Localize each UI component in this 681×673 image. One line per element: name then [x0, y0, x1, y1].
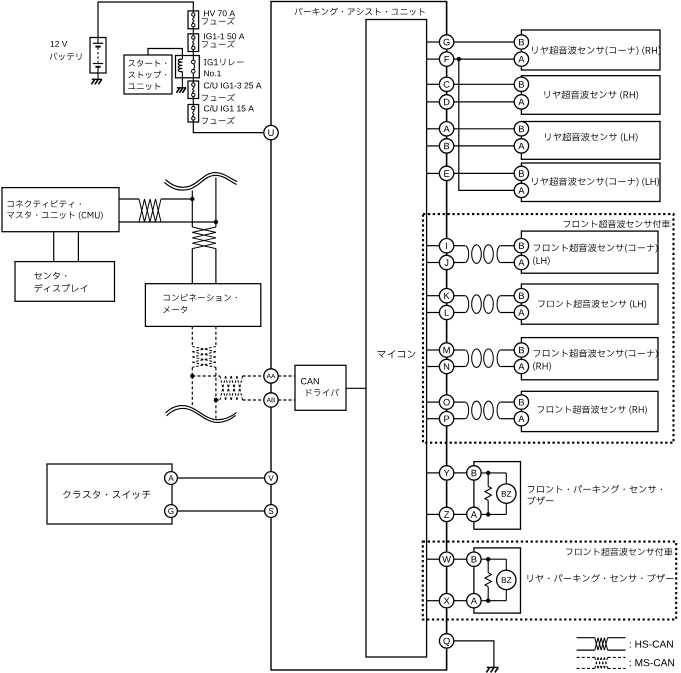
- ground unit: [487, 666, 499, 668]
- wire pair to front sensor 4: [454, 401, 466, 403]
- wire Q to ground: [454, 641, 494, 668]
- wire G to rear corner RH B: [454, 41, 514, 43]
- label rear buzzer: [528, 574, 674, 582]
- wire micon to I: [427, 245, 440, 247]
- wire micon to W: [427, 558, 440, 560]
- wire micon to O: [427, 401, 440, 403]
- front parking sensor buzzer internal wiring: [481, 472, 506, 474]
- wire micon to C: [427, 83, 440, 85]
- relay contact: [192, 56, 194, 61]
- terminal A rear2: [514, 95, 528, 109]
- fuse IG1-1 50A: [188, 34, 199, 52]
- wire A to V: [177, 477, 264, 479]
- wire G to S: [177, 510, 264, 512]
- wire Z to front buzzer A: [454, 513, 467, 515]
- label front buzzer: [528, 485, 662, 493]
- wire micon to M: [427, 349, 440, 351]
- label center display: [34, 272, 66, 280]
- terminal A front4: [514, 412, 528, 426]
- CAN driver U2 box: [295, 365, 346, 410]
- front parking sensor buzzer sounder BZ: [497, 484, 516, 503]
- terminal Y: [439, 466, 453, 480]
- wire micon to Z: [427, 513, 440, 515]
- label fuse C/U IG1 15A: [204, 105, 254, 111]
- combination meter box: [145, 284, 260, 327]
- rear parking sensor buzzer node B: [486, 557, 490, 561]
- twisted pair MS vertical dashed: [192, 347, 216, 352]
- terminal AA: [264, 369, 278, 383]
- wire battery to fuse chain: [98, 2, 193, 38]
- terminal Q: [439, 634, 453, 648]
- terminal B rear4: [514, 166, 528, 180]
- wire MS-CAN below meter: [191, 326, 193, 346]
- wire: [192, 78, 194, 81]
- relay coil: [181, 56, 183, 60]
- front ultrasonic RH box: [521, 391, 658, 431]
- dotted box rear buzzer: [423, 542, 676, 620]
- start-stop unit box: [124, 55, 172, 94]
- label front sensor equipped 1: [564, 220, 670, 228]
- wire CMU CAN-L: [119, 221, 161, 223]
- rear parking sensor buzzer terminal A: [467, 594, 481, 608]
- rear parking sensor buzzer internal wiring: [481, 558, 506, 560]
- terminal F: [439, 52, 453, 66]
- terminal M: [439, 343, 453, 357]
- wire micon to F: [427, 58, 440, 60]
- terminal A cluster: [165, 472, 178, 485]
- wire micon to L: [427, 312, 440, 314]
- fuse C/U IG1-3 25A: [188, 81, 199, 99]
- ground relay coil: [177, 87, 186, 89]
- microcomputer block: [366, 20, 427, 658]
- terminal C: [439, 77, 453, 91]
- wire Y to front buzzer B: [454, 472, 467, 474]
- node MS-L junction: [214, 398, 218, 402]
- wire MS-CAN H: [191, 367, 193, 376]
- terminal L: [439, 305, 453, 319]
- terminal K: [439, 289, 453, 303]
- break wave top: [166, 173, 238, 188]
- terminal U: [264, 125, 278, 139]
- wire MS-CAN L: [215, 367, 217, 400]
- twisted pair front sensor 4: [466, 402, 469, 419]
- label fuse HV 70A: [204, 10, 235, 16]
- wire micon to K: [427, 295, 440, 297]
- unit right edge terminal column: [446, 2, 448, 671]
- rear ultrasonic LH box: [521, 122, 660, 160]
- label front LH: [538, 300, 646, 309]
- parking assist unit box: [271, 2, 447, 671]
- terminal A front2: [514, 305, 528, 319]
- wire CMU to display: [53, 232, 55, 262]
- terminal A rear1: [514, 52, 528, 66]
- wire pair to front sensor 1: [454, 245, 466, 247]
- twisted pair AA/AB dashed: [220, 376, 226, 400]
- terminal A front3: [514, 359, 528, 373]
- wire pair to front sensor 3: [454, 349, 466, 351]
- terminal W: [439, 552, 453, 566]
- wire F to rear corner RH A: [454, 58, 514, 60]
- node MS-H junction: [190, 374, 194, 378]
- wire micon to J: [427, 262, 440, 264]
- terminal B front3: [514, 343, 528, 357]
- terminal B rear2: [514, 77, 528, 91]
- terminal A: [439, 122, 453, 136]
- twisted pair front sensor 2: [466, 296, 469, 313]
- terminal D: [439, 95, 453, 109]
- terminal A rear3: [514, 139, 528, 153]
- wire MS-H to AA: [192, 375, 220, 377]
- front ultrasonic LH box: [521, 284, 658, 324]
- break wave bottom: [166, 406, 237, 420]
- node F junction: [457, 57, 461, 61]
- label rear corner LH: [532, 177, 659, 186]
- front parking sensor buzzer node A: [486, 512, 490, 516]
- terminal S: [265, 505, 278, 518]
- wire CAN driver to micon: [346, 387, 366, 389]
- terminal O: [439, 395, 453, 409]
- twisted pair front sensor 1: [466, 246, 469, 263]
- wire F bus down to rear corner LH A: [459, 59, 514, 190]
- terminal G: [439, 35, 453, 49]
- wire W to rear buzzer B: [454, 558, 467, 560]
- wire micon to G: [427, 41, 440, 43]
- wire E to rear corner LH B: [454, 172, 514, 174]
- twisted pair bus vertical: [192, 227, 216, 232]
- wire MS-L continue: [215, 400, 217, 419]
- wire B to rear LH A: [454, 145, 514, 147]
- wire C to rear RH B: [454, 83, 514, 85]
- legend HS-CAN symbol: [577, 637, 595, 639]
- label combination meter: [163, 294, 236, 302]
- terminal A rear4: [514, 183, 528, 197]
- front parking sensor buzzer node B: [486, 471, 490, 475]
- wire micon to E: [427, 172, 440, 174]
- wire pair to front sensor 2: [454, 295, 466, 297]
- front parking sensor buzzer resistor: [487, 473, 489, 487]
- label fuse C/U IG1-3 25A: [204, 82, 262, 88]
- wire CMU CAN-H: [119, 198, 139, 200]
- front parking sensor buzzer terminal A: [467, 507, 481, 521]
- wire start-stop to relay coil: [148, 49, 182, 56]
- wire A to rear LH B: [454, 128, 514, 130]
- terminal X: [439, 594, 453, 608]
- wire D to rear RH A: [454, 101, 514, 103]
- rear parking sensor buzzer resistor: [487, 559, 489, 573]
- rear parking sensor buzzer node A: [486, 599, 490, 603]
- wire micon to Y: [427, 472, 440, 474]
- terminal B front1: [514, 239, 528, 253]
- terminal E: [439, 166, 453, 180]
- label 12V battery: [51, 41, 68, 47]
- wire fuse to terminal U: [193, 122, 263, 133]
- label rear corner RH: [532, 46, 660, 55]
- legend MS-CAN text: [630, 659, 674, 666]
- terminal N: [439, 359, 453, 373]
- ground battery: [92, 78, 102, 80]
- terminal B front2: [514, 289, 528, 303]
- front parking sensor buzzer box: [474, 462, 521, 530]
- label start-stop unit: [128, 60, 166, 67]
- relay IG1 No.1 box: [176, 56, 200, 78]
- terminal AB: [264, 393, 278, 407]
- rear parking sensor buzzer terminal B: [467, 552, 481, 566]
- terminal P: [439, 412, 453, 426]
- wire: [192, 99, 194, 105]
- wire micon to X: [427, 600, 440, 602]
- legend HS-CAN text: [630, 640, 673, 647]
- label front sensor equipped 2: [566, 548, 672, 556]
- front parking sensor buzzer terminal B: [467, 466, 481, 480]
- terminal I: [439, 239, 453, 253]
- CMU box: [2, 188, 119, 232]
- center display box: [15, 262, 115, 302]
- battery BATT1 12V: [90, 38, 106, 74]
- node CAN-H junction: [190, 197, 194, 201]
- dotted box front sensors: [423, 214, 674, 443]
- wire micon to A: [427, 128, 440, 130]
- front ultrasonic corner LH box: [521, 231, 658, 273]
- wire X to rear buzzer A: [454, 600, 467, 602]
- terminal V: [265, 472, 278, 485]
- wire MS-H continue: [191, 376, 193, 407]
- rear ultrasonic corner LH box: [521, 163, 660, 202]
- twisted pair CMU: [139, 199, 145, 222]
- terminal B rear3: [514, 122, 528, 136]
- terminal B front4: [514, 395, 528, 409]
- wire micon to P: [427, 418, 440, 420]
- terminal B: [439, 139, 453, 153]
- label front corner RH: [534, 349, 658, 358]
- label CAN driver: [301, 378, 319, 384]
- wire micon to N: [427, 366, 440, 368]
- wire bus H: [191, 191, 193, 228]
- wire micon to D: [427, 101, 440, 103]
- label cluster switch: [63, 490, 150, 499]
- label front RH: [538, 405, 647, 414]
- rear ultrasonic RH box: [521, 76, 660, 115]
- label relay IG1 No.1: [204, 59, 244, 66]
- cluster switch box: [47, 464, 172, 524]
- terminal A front1: [514, 255, 528, 269]
- rear ultrasonic corner RH box: [521, 30, 660, 70]
- label parking assist unit: [295, 8, 425, 16]
- rear parking sensor buzzer sounder BZ: [497, 570, 516, 589]
- label rear RH: [545, 90, 639, 99]
- label front corner LH: [534, 244, 658, 253]
- terminal B rear1: [514, 35, 528, 49]
- terminal J: [439, 255, 453, 269]
- label CMU: [7, 200, 80, 208]
- terminal G cluster: [165, 505, 178, 518]
- wire micon to B: [427, 145, 440, 147]
- node CAN-L junction: [214, 220, 218, 224]
- legend MS-CAN symbol: [577, 656, 595, 658]
- wire AB to CAN driver: [278, 399, 295, 401]
- fuse C/U IG1 15A: [188, 105, 199, 123]
- label rear LH: [545, 133, 637, 142]
- wire AA to CAN driver: [278, 375, 295, 377]
- rear parking sensor buzzer box: [474, 548, 521, 613]
- twisted pair front sensor 3: [466, 350, 469, 367]
- terminal Z: [439, 507, 453, 521]
- label micon: [378, 350, 416, 358]
- label fuse IG1-1 50A: [204, 33, 244, 39]
- front ultrasonic corner RH box: [521, 338, 658, 380]
- fuse HV 70A: [188, 11, 199, 29]
- wire: [192, 52, 194, 56]
- wire: [192, 29, 194, 34]
- wire bus L: [215, 178, 217, 228]
- wire MS-L to AB: [216, 399, 220, 401]
- wire bus to meter: [191, 249, 193, 284]
